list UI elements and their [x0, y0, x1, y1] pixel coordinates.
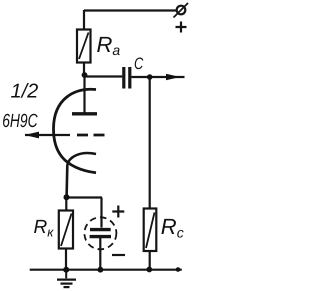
svg-text:C: C — [134, 55, 143, 73]
svg-text:Rc: Rc — [161, 214, 184, 241]
svg-text:1/2: 1/2 — [11, 81, 39, 103]
svg-text:Rк: Rк — [34, 217, 55, 240]
svg-text:Ra: Ra — [97, 32, 121, 58]
svg-text:6Н9С: 6Н9С — [2, 111, 38, 132]
